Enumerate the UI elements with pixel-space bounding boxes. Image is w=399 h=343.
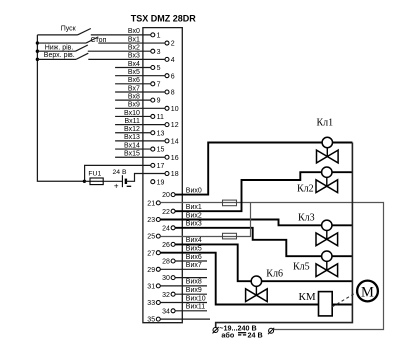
- wire terminal 17 to +24V node: [85, 165, 151, 181]
- svg-text:Вх4: Вх4: [128, 61, 140, 68]
- svg-text:Вх3: Вх3: [128, 53, 140, 60]
- svg-text:Кл2: Кл2: [297, 184, 314, 195]
- switch Пуск (contact): [37, 29, 150, 35]
- svg-text:7: 7: [157, 81, 161, 88]
- fuse on common 25: [223, 233, 237, 239]
- label Вх7: [128, 85, 140, 92]
- label Вих2: [186, 212, 202, 219]
- PLC output terminal 32: [162, 292, 175, 299]
- svg-text:Кл1: Кл1: [317, 117, 334, 128]
- svg-text:Стоп: Стоп: [91, 37, 107, 44]
- PLC title TSX DMZ 28DR: [131, 13, 197, 23]
- PLC input terminal 15: [151, 147, 165, 154]
- PLC input terminal 17: [151, 163, 165, 170]
- label Вх9: [128, 102, 140, 109]
- svg-text:Вих1: Вих1: [186, 204, 202, 211]
- label Кл3: [298, 213, 315, 224]
- wire valve Кл6 to bus: [262, 280, 353, 282]
- label Вих6: [186, 254, 202, 261]
- svg-text:Вих8: Вих8: [186, 279, 202, 286]
- label FU1: [88, 171, 101, 178]
- PLC output terminal 22: [162, 209, 175, 216]
- svg-text:25: 25: [147, 234, 155, 241]
- PLC input terminal 9: [151, 98, 161, 105]
- label Вх2: [128, 45, 140, 52]
- PLC input terminal 10: [165, 106, 179, 113]
- label Вх14: [124, 142, 140, 149]
- wire Вих9 stub: [175, 293, 207, 295]
- wire Вих5 to КМ coil: [160, 253, 352, 305]
- wire input Вх10 stub: [115, 115, 151, 117]
- svg-text:Вих4: Вих4: [186, 237, 202, 244]
- PLC input terminal 12: [165, 122, 179, 129]
- svg-text:Вих3: Вих3: [186, 221, 202, 228]
- wire input Вх9 stub: [115, 107, 165, 109]
- svg-text:Вх13: Вх13: [124, 134, 140, 141]
- svg-text:Вих2: Вих2: [186, 212, 202, 219]
- wire input Вх7 stub: [115, 91, 165, 93]
- label Вх11: [125, 118, 140, 125]
- fuse on common 21: [223, 200, 237, 206]
- svg-text:Вх5: Вх5: [128, 69, 140, 76]
- PLC module TSX DMZ 28DR body: [143, 28, 182, 323]
- svg-text:Вих0: Вих0: [186, 187, 202, 194]
- label Вх13: [124, 134, 140, 141]
- wire input Вх12 stub: [115, 132, 151, 134]
- label Вх8: [128, 93, 140, 100]
- PLC input terminal 19: [151, 179, 165, 186]
- svg-text:21: 21: [147, 201, 155, 208]
- label Кл5: [293, 262, 310, 273]
- wire input Вх15 stub: [115, 156, 165, 158]
- wire Вих8 stub: [160, 285, 207, 287]
- label Вх3: [128, 53, 140, 60]
- label або ⎓ 24 В: [221, 330, 262, 339]
- label Вих1: [186, 204, 202, 211]
- label Вих10: [186, 295, 206, 302]
- switch Стоп (contact): [37, 37, 165, 43]
- label Вих11: [186, 304, 205, 311]
- wire Вих10 stub: [160, 302, 207, 304]
- svg-text:23: 23: [147, 217, 155, 224]
- PLC output terminal 21: [147, 201, 160, 208]
- svg-text:Вих6: Вих6: [186, 254, 202, 261]
- wire battery to terminal 18: [126, 174, 165, 182]
- label Кл2: [297, 184, 314, 195]
- wire input Вх8 stub: [115, 99, 151, 101]
- PLC output terminal 29: [147, 267, 160, 274]
- svg-text:20: 20: [162, 192, 170, 199]
- source terminal left (slashed): [213, 327, 219, 333]
- svg-text:Вих7: Вих7: [186, 262, 202, 269]
- label Верх. рів.: [44, 51, 75, 59]
- PLC input terminal 13: [151, 130, 165, 137]
- svg-text:3: 3: [157, 49, 161, 56]
- PLC output terminal 23: [147, 217, 160, 224]
- PLC output terminal 24: [162, 225, 175, 232]
- PLC output terminal 28: [162, 259, 175, 266]
- PLC input terminal 4: [165, 57, 175, 64]
- svg-text:М: М: [361, 284, 374, 300]
- svg-text:11: 11: [157, 114, 164, 121]
- wire input Вх6 stub: [115, 83, 151, 85]
- svg-text:Вх11: Вх11: [125, 118, 140, 125]
- svg-text:Вх6: Вх6: [128, 77, 140, 84]
- wire Вих7 stub: [160, 268, 207, 270]
- svg-text:32: 32: [162, 292, 170, 299]
- PLC output terminal 25: [147, 234, 160, 241]
- label КМ: [299, 291, 316, 303]
- valve Кл6: [246, 276, 268, 302]
- label Вих0: [186, 187, 202, 194]
- svg-text:Кл3: Кл3: [298, 213, 315, 224]
- svg-text:10: 10: [171, 106, 179, 113]
- wire valve Кл5 to bus: [332, 255, 352, 257]
- battery 24 В cell: [122, 175, 126, 187]
- valve Кл3: [316, 220, 338, 246]
- svg-text:Вих11: Вих11: [186, 304, 205, 311]
- PLC output terminal 31: [147, 284, 160, 291]
- label Вх1: [128, 36, 140, 43]
- wire Вих11 stub: [175, 310, 207, 312]
- wire valve Кл3 to bus: [332, 224, 352, 226]
- svg-text:Кл5: Кл5: [293, 262, 310, 273]
- junction dot Стоп bus: [36, 41, 39, 44]
- PLC output terminal 27: [147, 250, 160, 257]
- valve Кл2: [316, 167, 338, 193]
- mechanical link КМ-М (dashed): [332, 293, 356, 308]
- svg-text:24 В: 24 В: [248, 330, 263, 339]
- svg-text:КМ: КМ: [299, 291, 316, 303]
- svg-text:27: 27: [147, 250, 155, 257]
- svg-text:8: 8: [171, 90, 175, 97]
- svg-text:18: 18: [171, 171, 179, 178]
- PLC output terminal 35: [147, 317, 160, 324]
- junction dot Верх bus: [36, 58, 39, 61]
- svg-text:9: 9: [157, 98, 161, 105]
- PLC input terminal 11: [151, 114, 164, 121]
- svg-text:Ниж. рів.: Ниж. рів.: [45, 43, 74, 51]
- svg-text:26: 26: [162, 242, 170, 249]
- left +24V bus wire: [37, 35, 84, 181]
- wire valve Кл1 to bus: [332, 142, 352, 144]
- svg-text:2: 2: [171, 41, 175, 48]
- wire Вих4 to Кл6: [175, 244, 251, 281]
- svg-text:35: 35: [147, 317, 155, 324]
- svg-text:28: 28: [162, 259, 170, 266]
- svg-text:Вх8: Вх8: [128, 93, 140, 100]
- valve Кл5: [316, 251, 338, 277]
- wire common 21 fused to supply: [160, 203, 383, 330]
- wire +24V node to fuse: [84, 180, 90, 182]
- PLC input terminal 16: [165, 155, 179, 162]
- label Вих5: [186, 246, 202, 253]
- label Вих8: [186, 279, 202, 286]
- fuse FU1: [90, 178, 103, 185]
- label Вх10: [124, 110, 140, 117]
- wire input Вх11 stub: [115, 124, 165, 126]
- wire Вих2 to Кл3: [160, 220, 321, 226]
- svg-text:30: 30: [162, 275, 170, 282]
- label Вх5: [128, 69, 140, 76]
- label Вих9: [186, 287, 202, 294]
- svg-text:Вих10: Вих10: [186, 295, 206, 302]
- label − (battery minus): [127, 185, 132, 187]
- PLC output terminal 26: [162, 242, 175, 249]
- svg-text:Вх15: Вх15: [124, 151, 140, 158]
- svg-text:34: 34: [162, 308, 170, 315]
- svg-text:FU1: FU1: [88, 171, 101, 178]
- wire terminal 35 stub: [160, 318, 210, 320]
- PLC output terminal 33: [147, 300, 160, 307]
- label Кл1: [317, 117, 334, 128]
- switch Ниж. рів. (contact): [37, 45, 150, 51]
- PLC input terminal 3: [151, 49, 161, 56]
- valve Кл1: [317, 137, 339, 163]
- wire Вих1 to Кл2: [175, 172, 321, 211]
- svg-text:22: 22: [162, 209, 170, 216]
- label Стоп: [91, 37, 107, 44]
- PLC output terminal 20: [162, 192, 175, 199]
- contactor coil КМ: [319, 292, 333, 316]
- svg-text:1: 1: [157, 33, 161, 40]
- junction dot Ниж bus: [36, 50, 39, 53]
- wire Вих0 to Кл1: [175, 143, 322, 195]
- PLC input terminal 6: [165, 73, 175, 80]
- svg-text:Верх. рів.: Верх. рів.: [44, 51, 75, 59]
- wire Вих6 stub: [175, 260, 207, 262]
- PLC input terminal 18: [165, 171, 179, 178]
- wire terminal 30 stub: [175, 277, 207, 279]
- motor М: [357, 281, 378, 302]
- svg-text:TSX DMZ 28DR: TSX DMZ 28DR: [131, 13, 197, 23]
- label ~19…240 В: [219, 324, 256, 333]
- svg-text:6: 6: [171, 73, 175, 80]
- PLC input terminal 8: [165, 90, 175, 97]
- label Ниж. рів.: [45, 43, 74, 51]
- svg-text:Вх0: Вх0: [128, 28, 140, 35]
- svg-text:5: 5: [157, 65, 161, 72]
- supply bus wire right: [216, 143, 353, 329]
- wire fuse to battery: [103, 180, 122, 182]
- label Вих7: [186, 262, 202, 269]
- svg-text:29: 29: [147, 267, 155, 274]
- label Вих4: [186, 237, 202, 244]
- svg-text:Вх9: Вх9: [128, 102, 140, 109]
- svg-text:4: 4: [171, 57, 175, 64]
- label Вх12: [124, 126, 140, 133]
- label Кл6: [266, 268, 283, 279]
- svg-text:Вх14: Вх14: [124, 142, 140, 149]
- svg-text:Вх10: Вх10: [124, 110, 140, 117]
- PLC input terminal 5: [151, 65, 161, 72]
- svg-text:Вих5: Вих5: [186, 246, 202, 253]
- PLC input terminal 7: [151, 81, 161, 88]
- label Вх4: [128, 61, 140, 68]
- label Вх0: [128, 28, 140, 35]
- svg-text:17: 17: [157, 163, 165, 170]
- svg-text:13: 13: [157, 130, 165, 137]
- svg-text:Вх7: Вх7: [128, 85, 140, 92]
- wire input Вх4 stub: [115, 67, 151, 69]
- svg-text:19: 19: [157, 179, 165, 186]
- junction dot +24V node: [83, 180, 86, 183]
- svg-text:31: 31: [147, 284, 155, 291]
- wire common 25 fused to common 21: [160, 203, 250, 237]
- svg-text:24: 24: [162, 225, 170, 232]
- svg-text:Кл6: Кл6: [266, 268, 283, 279]
- wire input Вх14 stub: [115, 148, 151, 150]
- label Пуск: [61, 25, 77, 32]
- wire Вих3 to Кл5: [175, 228, 321, 256]
- PLC input terminal 14: [165, 139, 179, 146]
- svg-text:14: 14: [171, 139, 179, 146]
- svg-text:15: 15: [157, 147, 165, 154]
- wire valve Кл2 to bus: [332, 171, 352, 173]
- svg-text:Вх2: Вх2: [128, 45, 140, 52]
- svg-text:16: 16: [171, 155, 179, 162]
- svg-text:24 В: 24 В: [113, 169, 127, 176]
- svg-text:Вих9: Вих9: [186, 287, 202, 294]
- svg-text:Вх12: Вх12: [124, 126, 140, 133]
- PLC output terminal 34: [162, 308, 175, 315]
- PLC input terminal 1: [151, 33, 161, 40]
- svg-text:або: або: [221, 330, 234, 339]
- PLC output terminal 30: [162, 275, 175, 282]
- switch Верх. рів. (contact): [37, 53, 165, 59]
- PLC input terminal 2: [165, 41, 175, 48]
- svg-text:Пуск: Пуск: [61, 25, 77, 32]
- source terminal right (slashed): [268, 328, 274, 334]
- wire input Вх13 stub: [115, 140, 165, 142]
- label Вих3: [186, 221, 202, 228]
- label Вх15: [124, 151, 140, 158]
- svg-text:33: 33: [147, 300, 155, 307]
- svg-text:12: 12: [171, 122, 179, 129]
- label + (battery plus): [114, 181, 119, 190]
- svg-text:+: +: [114, 181, 119, 190]
- wire input Вх5 stub: [115, 75, 165, 77]
- label Вх6: [128, 77, 140, 84]
- label 24 В: [113, 169, 127, 176]
- svg-text:Вх1: Вх1: [128, 36, 140, 43]
